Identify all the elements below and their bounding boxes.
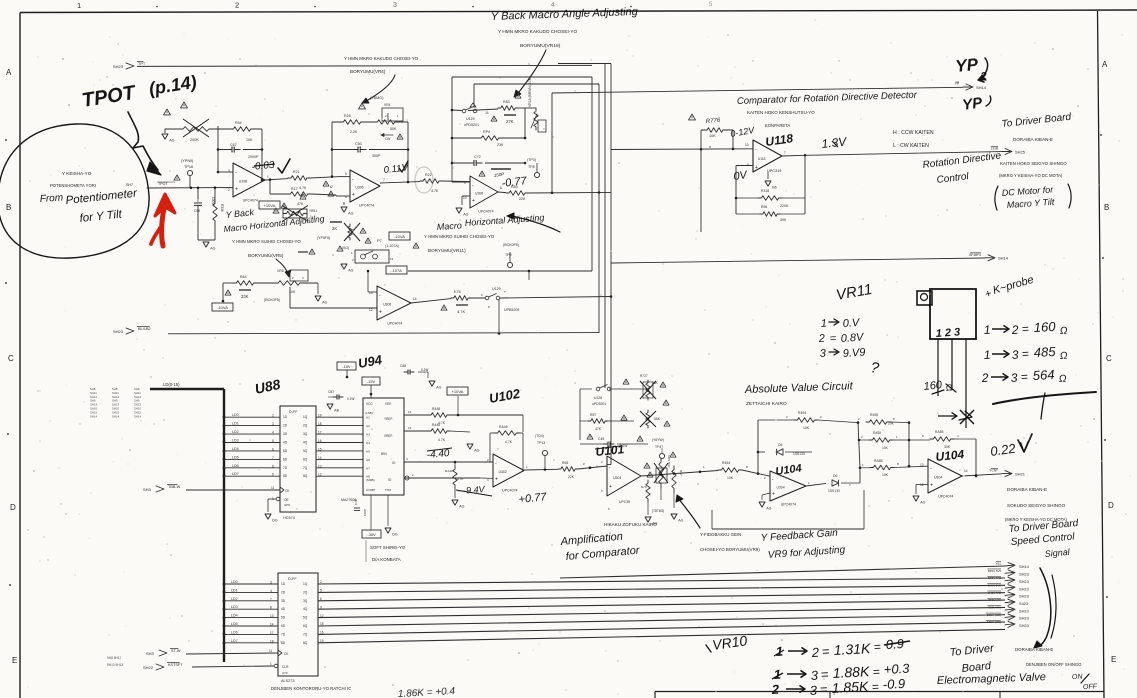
svg-text:+: +	[755, 165, 758, 171]
svg-text:9: 9	[272, 473, 274, 477]
svg-text:1 2 3: 1 2 3	[935, 326, 960, 340]
wire stage3 out to right	[528, 191, 611, 194]
svg-text:8Q: 8Q	[303, 641, 308, 645]
svg-text:564: 564	[1032, 367, 1054, 383]
svg-text:4.7K: 4.7K	[457, 309, 466, 314]
annotation VR9 arrow	[678, 498, 700, 528]
svg-text:U306: U306	[355, 186, 363, 190]
svg-text:+: +	[472, 198, 475, 204]
annotation arrow to TPOT node	[128, 112, 158, 170]
potentiometer VR18	[524, 108, 526, 138]
svg-text:14: 14	[964, 469, 968, 473]
svg-text:8Q: 8Q	[303, 474, 308, 478]
bus junction dots	[223, 416, 226, 419]
boxed -10VA P7	[389, 232, 410, 240]
svg-text:3: 3	[1010, 371, 1018, 385]
svg-text:R318: R318	[761, 189, 769, 193]
svg-text:4.7K: 4.7K	[457, 477, 464, 481]
svg-text:2: 2	[980, 371, 989, 385]
svg-text:4.7K: 4.7K	[505, 440, 513, 444]
svg-text:YCNT: YCNT	[989, 469, 998, 473]
svg-text:SH14: SH14	[976, 85, 987, 90]
resistor R454 input	[718, 468, 742, 473]
svg-text:KAITEN HOKO SEIGYO SHINGO: KAITEN HOKO SEIGYO SHINGO	[1000, 161, 1067, 166]
wire U104b out	[962, 474, 1002, 476]
svg-text:AG: AG	[169, 139, 174, 143]
svg-text:R21: R21	[293, 170, 300, 174]
annotation arrow VR11 hand	[512, 216, 560, 232]
svg-text:1.31K: 1.31K	[833, 640, 871, 658]
net arrow SH21	[1002, 473, 1011, 475]
svg-text:-15V: -15V	[342, 364, 351, 369]
svg-text:LD1: LD1	[232, 422, 239, 426]
svg-text:1: 1	[77, 1, 81, 10]
svg-text:BORYUMU(VR11): BORYUMU(VR11)	[428, 248, 466, 253]
annotation VR18 arrow	[519, 50, 546, 92]
svg-text:LD3: LD3	[231, 605, 238, 609]
svg-text:SH23: SH23	[1019, 586, 1029, 591]
svg-text:=: =	[873, 640, 881, 654]
wire R21 to stage2	[310, 177, 340, 178]
svg-text:B6: B6	[772, 186, 776, 190]
svg-text:E05V (W2): E05V (W2)	[987, 613, 1001, 617]
svg-text:UPC4074: UPC4074	[478, 210, 493, 214]
wire R64 left -10VA	[223, 282, 233, 284]
ground Alq P7	[341, 264, 347, 269]
svg-text:KSTSFT: KSTSFT	[168, 663, 183, 667]
svg-text:LD5: LD5	[232, 455, 239, 459]
svg-text:YP: YP	[954, 55, 979, 76]
svg-text:17: 17	[270, 631, 274, 635]
svg-text:47K: 47K	[595, 427, 602, 431]
connector CN VR11	[930, 289, 976, 339]
switch U129 stage3	[470, 103, 476, 107]
svg-text:R336: R336	[220, 204, 224, 212]
pot crossed 65K	[646, 410, 650, 428]
svg-text:33K: 33K	[241, 294, 249, 299]
svg-text:4Q: 4Q	[303, 607, 308, 611]
svg-text:C58: C58	[194, 209, 200, 213]
op-amp U306 stage2	[350, 170, 380, 202]
svg-text:1SS133: 1SS133	[828, 489, 840, 493]
svg-text:(YF8F5): (YF8F5)	[317, 236, 330, 240]
title block partial	[655, 691, 1104, 693]
wire VR left to ground	[165, 128, 178, 130]
svg-text:UP8: UP8	[284, 503, 290, 507]
boxed -15V U94	[337, 362, 356, 370]
box outline lines top	[558, 63, 611, 65]
svg-text:2Q: 2Q	[303, 590, 308, 594]
svg-text:Y HMN MKRO KAKUDO CHOSEI-YO: Y HMN MKRO KAKUDO CHOSEI-YO	[344, 56, 419, 61]
svg-text:SH23: SH23	[1019, 579, 1029, 584]
svg-text:YR51: YR51	[309, 209, 317, 213]
svg-text:4: 4	[272, 431, 274, 435]
svg-text:2D: 2D	[281, 590, 286, 594]
svg-text:RA46: RA46	[499, 425, 508, 429]
svg-text:ST-W: ST-W	[171, 649, 181, 653]
svg-text:CHOSEI-YO BORYUMU(VR9): CHOSEI-YO BORYUMU(VR9)	[700, 547, 760, 552]
svg-text:UPB5205: UPB5205	[504, 308, 519, 312]
red arrow annotation	[161, 206, 164, 246]
svg-text:R455: R455	[870, 413, 878, 417]
svg-text:BORYUMU(VR5): BORYUMU(VR5)	[248, 253, 284, 258]
svg-text:Ω: Ω	[1060, 326, 1069, 337]
ground AG VR5	[315, 296, 321, 301]
potentiometer VR5	[274, 281, 304, 286]
wire stage4 out	[411, 299, 451, 303]
svg-text:1Q: 1Q	[303, 582, 308, 586]
svg-text:2000P: 2000P	[248, 155, 259, 159]
svg-text:5Q: 5Q	[303, 616, 308, 620]
ground AG stage1 bottom	[203, 242, 209, 247]
svg-text:13: 13	[408, 426, 412, 430]
svg-text:L : CW KAITEN: L : CW KAITEN	[893, 143, 929, 149]
svg-text:UPC4074: UPC4074	[387, 322, 402, 326]
svg-text:(YPIW): (YPIW)	[181, 159, 194, 163]
svg-text:IO: IO	[392, 461, 396, 465]
capacitor C58 R336 to ground	[197, 188, 199, 199]
svg-text:14: 14	[270, 623, 274, 627]
svg-text:-10VA: -10VA	[217, 305, 228, 310]
capacitor C50	[352, 149, 358, 151]
svg-text:B: B	[1104, 203, 1109, 212]
svg-text:R22: R22	[425, 173, 432, 177]
connector pins VR11	[937, 339, 939, 396]
svg-text:7: 7	[784, 151, 786, 155]
wire R65 to U101	[578, 466, 607, 469]
svg-text:+: +	[379, 310, 382, 316]
potentiometer VR4	[374, 120, 398, 125]
svg-text:SH23: SH23	[1019, 572, 1029, 577]
svg-text:7: 7	[383, 178, 385, 182]
svg-text:1.85K: 1.85K	[831, 678, 869, 696]
svg-text:+10VA: +10VA	[264, 203, 276, 208]
svg-text:7: 7	[270, 597, 272, 601]
svg-text:B45V TA5: B45V TA5	[988, 591, 1001, 595]
svg-text:10K: 10K	[709, 134, 716, 138]
svg-text:4D: 4D	[283, 441, 288, 445]
svg-text:U30B: U30B	[239, 180, 248, 184]
svg-text:BORYUMU(VR18): BORYUMU(VR18)	[520, 43, 561, 49]
svg-text:6D: 6D	[283, 457, 288, 461]
op-amp U306 stage4	[377, 286, 411, 320]
wire abs bottom	[712, 528, 864, 530]
svg-text:(MSB): (MSB)	[366, 478, 375, 482]
svg-text:T: T	[504, 290, 506, 294]
svg-text:R83: R83	[511, 185, 518, 189]
switch U129 stage4	[485, 296, 489, 300]
svg-text:SH25: SH25	[1015, 149, 1026, 154]
svg-text:LD4: LD4	[231, 614, 238, 618]
svg-text:C88: C88	[400, 364, 406, 368]
svg-text:4.7K: 4.7K	[431, 189, 439, 193]
resistor RA46 feedback	[494, 431, 520, 436]
svg-text:8D: 8D	[281, 641, 286, 645]
svg-text:5D: 5D	[283, 449, 288, 453]
svg-text:485: 485	[1033, 344, 1056, 360]
svg-text:SH14: SH14	[90, 414, 97, 418]
wire TPT input	[137, 65, 592, 66]
svg-text:uPD5201: uPD5201	[592, 402, 606, 406]
svg-text:Y-FIDOBAKKU GEIN: Y-FIDOBAKKU GEIN	[700, 532, 741, 537]
IC U88 D-FF HC574	[280, 406, 316, 512]
svg-text:E: E	[1111, 655, 1116, 664]
svg-text:=: =	[819, 682, 828, 697]
svg-text:LD0: LD0	[232, 413, 239, 417]
svg-text:LD3: LD3	[232, 439, 239, 443]
resistor R455a	[866, 420, 890, 425]
svg-text:ALS273: ALS273	[281, 679, 295, 683]
svg-text:CLR: CLR	[282, 665, 289, 669]
page frame border	[20, 10, 1137, 13]
svg-text:27K: 27K	[506, 119, 514, 124]
svg-text:C45: C45	[598, 437, 604, 441]
svg-text:LD4: LD4	[232, 447, 239, 451]
wire switch row	[452, 109, 462, 112]
svg-text:-0.9: -0.9	[882, 676, 905, 692]
svg-text:=: =	[820, 667, 829, 682]
svg-text:(MKRO Y KEISHA-YO DC MOTA): (MKRO Y KEISHA-YO DC MOTA)	[999, 173, 1063, 178]
switch U126	[596, 387, 600, 391]
svg-text:2: 2	[1010, 323, 1019, 337]
svg-text:13: 13	[270, 614, 274, 618]
op-amp U302	[493, 454, 524, 487]
wire left rail abs	[757, 420, 759, 474]
svg-text:DENJIBEN KONTORORU-YO RATCHI I: DENJIBEN KONTORORU-YO RATCHI IC	[271, 686, 351, 691]
svg-text:D-FF: D-FF	[289, 410, 298, 414]
svg-text:300P: 300P	[372, 154, 381, 158]
svg-text:SOFT SHIREI-YO: SOFT SHIREI-YO	[370, 545, 406, 550]
warning triangle TBMG	[359, 103, 366, 109]
svg-text:R17: R17	[291, 187, 298, 191]
svg-text:10K: 10K	[246, 138, 253, 142]
wire R22 to stage3	[442, 180, 470, 183]
annotation arrow VR4	[368, 75, 395, 100]
svg-text:220K: 220K	[780, 204, 789, 208]
svg-text:TP9: TP9	[505, 253, 512, 257]
svg-text:±: ±	[608, 507, 610, 511]
ground AG stage1 left	[162, 134, 168, 139]
pot crossed 20K	[646, 380, 650, 400]
wire stage4 to rail	[471, 297, 485, 299]
svg-text:12: 12	[369, 308, 373, 312]
wire VR5 row	[257, 282, 274, 284]
svg-text:(SG): (SG)	[342, 246, 349, 250]
svg-text:LD1: LD1	[231, 588, 238, 592]
svg-text:E: E	[12, 656, 17, 665]
svg-text:LD6: LD6	[232, 464, 239, 468]
wire stage2 in	[340, 176, 350, 178]
svg-text:TPT: TPT	[138, 62, 146, 66]
annotation arrow VR5	[276, 259, 288, 274]
svg-text:VR9 50K: VR9 50K	[667, 455, 671, 468]
svg-text:YP: YP	[961, 94, 984, 114]
resistor R21	[288, 176, 310, 181]
svg-text:A3: A3	[366, 433, 370, 437]
svg-text:ON: ON	[1072, 674, 1084, 681]
svg-text:BF4BF5: BF4BF5	[969, 253, 981, 257]
svg-text:A7: A7	[366, 466, 370, 470]
svg-text:AG: AG	[348, 212, 353, 216]
ground AG VR9	[671, 514, 677, 519]
svg-text:BORYUMU(VR4): BORYUMU(VR4)	[350, 69, 386, 74]
wire BF4BF5 SH14	[611, 258, 985, 263]
svg-text:U?3: U?3	[282, 671, 288, 675]
op-amp U118	[753, 140, 782, 172]
svg-text:12: 12	[920, 483, 924, 487]
svg-text:R76: R76	[454, 290, 461, 294]
svg-text:0.8V: 0.8V	[840, 331, 865, 345]
svg-text:AG: AG	[474, 449, 479, 453]
svg-text:3Q: 3Q	[303, 599, 308, 603]
svg-text:P7: P7	[377, 238, 383, 243]
svg-text:R83: R83	[503, 100, 510, 104]
svg-text:100P: 100P	[363, 509, 367, 516]
bus wire thick	[150, 388, 224, 390]
svg-text:OFF: OFF	[1083, 683, 1098, 691]
svg-text:0.1W: 0.1W	[347, 397, 354, 401]
svg-text:COMP: COMP	[366, 488, 375, 492]
svg-text:5: 5	[345, 172, 347, 176]
resistor R446	[428, 429, 450, 434]
svg-text:1: 1	[267, 175, 269, 179]
svg-text:1D: 1D	[283, 415, 288, 419]
svg-text:R70: R70	[641, 485, 647, 489]
net arrow SH25	[1002, 151, 1011, 153]
svg-text:(LSB): (LSB)	[365, 411, 373, 415]
ground AG C87	[327, 404, 333, 409]
svg-text:U126: U126	[594, 396, 602, 400]
svg-text:14: 14	[413, 297, 417, 301]
wire dac pin14	[404, 414, 428, 416]
wire switch down to SH23 wire	[498, 300, 500, 334]
svg-text:(TBMG): (TBMG)	[370, 96, 384, 100]
resistor R455b	[859, 439, 869, 441]
svg-text:A6: A6	[366, 458, 370, 462]
wire stage1 inputs	[222, 187, 233, 189]
svg-text:R28: R28	[344, 114, 351, 118]
svg-text:BF5V 5V5: BF5V 5V5	[988, 569, 1002, 573]
svg-text:Y HMN MKRO SUIHEI CHOSEI-YO: Y HMN MKRO SUIHEI CHOSEI-YO	[232, 239, 301, 244]
wire U104a out diode D6	[806, 483, 826, 486]
svg-text:U118: U118	[758, 157, 766, 161]
svg-text:7D: 7D	[283, 466, 288, 470]
svg-text:AG: AG	[210, 247, 215, 251]
svg-text:2: 2	[810, 645, 820, 660]
svg-text:+: +	[609, 484, 612, 490]
mid rail abs	[858, 423, 860, 468]
svg-text:uPD5201: uPD5201	[464, 123, 479, 127]
svg-text:=: =	[1021, 322, 1029, 336]
svg-text:E05V (W): E05V (W)	[988, 606, 1001, 610]
svg-text:1D: 1D	[281, 582, 286, 586]
svg-text:KAITEN HOKO KENSHUTSU-YO: KAITEN HOKO KENSHUTSU-YO	[747, 110, 815, 115]
svg-text:RA55: RA55	[874, 459, 883, 463]
svg-text:VR5: VR5	[277, 269, 284, 273]
svg-text:THC: THC	[385, 488, 392, 492]
svg-text:5H10 5H13: 5H10 5H13	[107, 663, 123, 667]
svg-text:IO: IO	[388, 478, 392, 482]
svg-text:(Y6YW): (Y6YW)	[652, 438, 664, 442]
svg-text:SH23: SH23	[1019, 623, 1029, 628]
svg-text:SH14: SH14	[998, 256, 1009, 261]
op-amp U304	[233, 163, 265, 197]
svg-text:Ω: Ω	[1060, 351, 1069, 362]
diode D5	[758, 451, 765, 453]
svg-text:AG: AG	[463, 213, 468, 217]
resistor R455c	[860, 467, 870, 469]
svg-text:SH23: SH23	[1019, 608, 1029, 613]
potentiometer R55 crossed	[283, 209, 307, 218]
svg-text:5: 5	[272, 439, 274, 443]
vertical rail 611	[610, 64, 612, 465]
svg-text:U304: U304	[934, 476, 942, 480]
svg-text:6D: 6D	[281, 624, 286, 628]
svg-text:3: 3	[270, 581, 272, 585]
resistor R454 feedback	[758, 419, 794, 421]
svg-text:SH21: SH21	[1015, 471, 1026, 476]
svg-text:VEE: VEE	[385, 402, 391, 406]
svg-text:-10VA: -10VA	[394, 234, 405, 239]
svg-text:KONPARETA: KONPARETA	[765, 123, 790, 128]
svg-text:YP: YP	[955, 82, 959, 86]
svg-text:47K: 47K	[297, 202, 304, 206]
svg-text:4Q: 4Q	[303, 441, 308, 445]
svg-text:C: C	[1106, 354, 1112, 363]
svg-text:0.1W: 0.1W	[620, 444, 627, 448]
ghost oval pencil	[415, 167, 433, 193]
svg-text:+: +	[930, 483, 933, 489]
vertical rail 599	[598, 84, 600, 333]
svg-text:SH23: SH23	[113, 329, 124, 334]
svg-text:AG: AG	[436, 386, 441, 390]
svg-text:200K: 200K	[190, 138, 199, 142]
svg-text:+: +	[495, 477, 498, 483]
ground DG dac	[385, 528, 391, 533]
wire U302 out	[524, 468, 558, 471]
resistor R28	[340, 120, 364, 125]
ground AG mid	[467, 444, 473, 449]
svg-text:D/A KONBATA: D/A KONBATA	[372, 557, 401, 562]
svg-text:6Q: 6Q	[303, 457, 308, 461]
svg-text:C50: C50	[355, 142, 362, 146]
svg-text:SH23: SH23	[113, 64, 124, 69]
svg-text:R448: R448	[432, 407, 440, 411]
svg-text:2: 2	[235, 1, 239, 10]
wire input TPOT node	[147, 187, 222, 189]
svg-text:H : CCW KAITEN: H : CCW KAITEN	[893, 130, 934, 136]
svg-text:+: +	[352, 192, 355, 198]
svg-text:4.7K: 4.7K	[299, 186, 307, 190]
svg-text:R64: R64	[240, 275, 247, 279]
svg-text:3: 3	[272, 422, 274, 426]
svg-text:18: 18	[270, 639, 274, 643]
svg-text:4.7K: 4.7K	[438, 438, 446, 442]
wire YP top	[552, 87, 963, 93]
svg-text:YB1: YB1	[996, 561, 1002, 565]
comparator output node	[804, 154, 807, 157]
svg-text:10: 10	[745, 143, 749, 147]
svg-text:Y KEISHA-YO: Y KEISHA-YO	[62, 171, 92, 176]
resistor R17 47K	[269, 180, 271, 194]
wire comparator out	[805, 152, 1002, 156]
svg-text:(BCK0F5): (BCK0F5)	[503, 243, 519, 247]
svg-text:LD0: LD0	[231, 580, 238, 584]
svg-text:R56: R56	[761, 205, 767, 209]
right rail abs	[908, 423, 910, 467]
svg-text:(TO4): (TO4)	[535, 434, 544, 438]
potentiometer VR crossed 200K	[178, 127, 214, 132]
